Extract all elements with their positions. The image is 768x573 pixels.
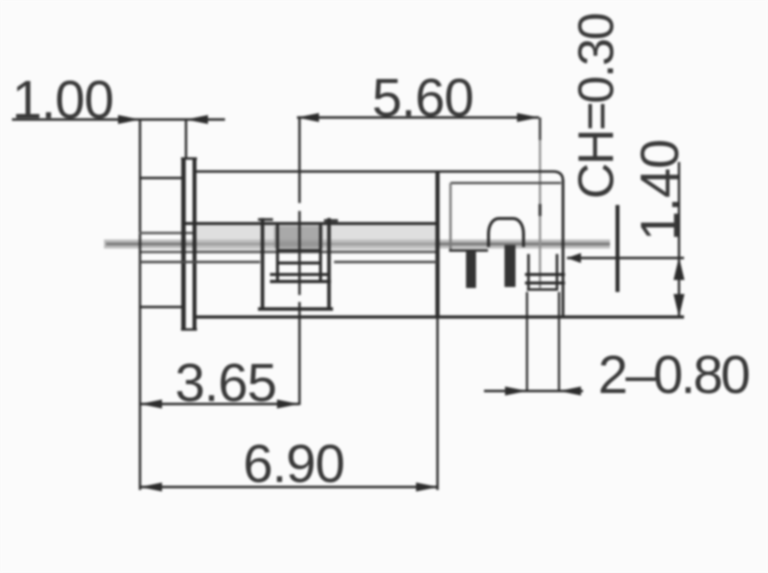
svg-text:5.60: 5.60 bbox=[372, 68, 473, 128]
svg-text:1.00: 1.00 bbox=[12, 70, 113, 130]
svg-text:CH=0.30: CH=0.30 bbox=[568, 14, 624, 199]
svg-text:3.65: 3.65 bbox=[175, 353, 276, 413]
svg-text:2–0.80: 2–0.80 bbox=[598, 345, 749, 405]
svg-text:6.90: 6.90 bbox=[243, 434, 344, 494]
svg-text:1.40: 1.40 bbox=[630, 140, 690, 241]
